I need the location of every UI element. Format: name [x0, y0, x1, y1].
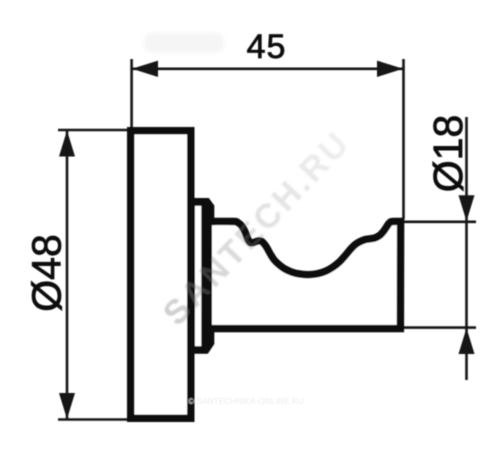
svg-text:© SANTECHNIKA-ONLINE.RU: © SANTECHNIKA-ONLINE.RU: [188, 397, 304, 406]
svg-text:Ø18: Ø18: [425, 115, 471, 193]
svg-text:45: 45: [247, 28, 287, 66]
svg-text:Ø48: Ø48: [23, 234, 69, 312]
